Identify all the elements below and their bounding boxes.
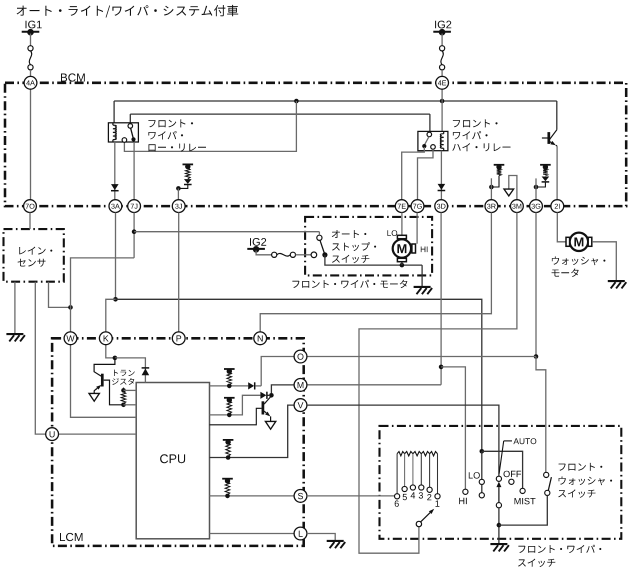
washer switch label [559,463,603,471]
motor LO label [387,230,397,236]
wire IG1 to fuse [30,34,32,46]
connector S [294,490,307,503]
wire 3R stub up [490,178,492,187]
IG2 label [435,21,451,29]
front wiper high relay box [418,131,448,150]
low relay contact [128,124,133,129]
motor HI label [421,247,428,253]
diode D2 high relay [440,151,442,200]
resistor-diode chain at 3J [183,163,194,165]
junction dot B [440,99,445,104]
washer motor M2 [570,233,588,251]
signal ground Q2 [265,421,275,429]
connector 7O [24,200,37,213]
low relay coil [113,125,116,140]
connector U [46,428,59,441]
junction dot arm [497,523,502,528]
wire 3R drop [490,187,492,200]
wire D4 to O riser [255,385,261,387]
transistor Q2 [262,401,265,414]
signal ground Q1 [89,393,99,401]
arrow marker 3M [504,189,514,196]
wire 3G down [535,213,537,357]
rain sensor box [4,229,64,282]
transistor label [114,370,135,377]
resistor-diode chain at 3G [540,164,551,166]
connector 4A [24,76,37,89]
wire 7J to W [71,258,135,332]
connector 3A [109,200,122,213]
wire 3D to M [307,384,441,386]
wire R1 to CPU [124,389,137,391]
wire LO dot to MIST [482,451,523,488]
junction dot Q2 collector [269,393,274,398]
washer switch [544,472,549,477]
connector V [294,399,307,412]
rotary taps [396,454,398,494]
front wiper switch box [380,426,622,539]
wire contact rail y113.6 [130,113,430,115]
wire base row to CPU [124,404,137,406]
connector 3R [485,200,498,213]
transistor Q3 [556,101,558,130]
wire U to CPU [58,433,136,435]
wire 7E to high relay common [402,147,425,200]
IG1 label [26,21,42,29]
wire high-relay contact riser [429,114,431,132]
rotary digits [395,500,399,506]
wire K feed to LO-MIST [116,299,482,451]
wire K branch [106,299,116,332]
high relay coil [440,134,443,149]
junction dot 3J [176,186,181,191]
connector 7E [395,200,408,213]
AUTO label [513,438,536,444]
connector K [99,332,112,345]
MIST contact [520,488,525,493]
wire 7G to high relay NO [418,149,434,199]
ground wiper switch [490,543,507,545]
BCM label [61,73,85,81]
connector W [64,332,77,345]
arm arrow [496,482,501,488]
wire 7O to rain sensor [29,213,31,230]
wire fuse to 4E [441,70,443,77]
connector 7J [128,200,141,213]
wire CPU to L [210,533,295,535]
resistor R5 [222,478,233,480]
wire node to fuse [256,251,272,255]
wire K to diode D3 [115,358,145,383]
front wiper switch label [518,545,601,553]
wire W to CPU [71,345,137,418]
wire O right [307,356,536,358]
fuse F2 [440,46,445,51]
wire 3D to HI contact [441,367,465,489]
wire fuse to switch [296,254,312,256]
node IG2 mid [247,248,265,250]
front wiper motor label [292,280,407,288]
connector 3M [511,200,524,213]
fuse F3 [272,252,277,257]
wire switch to motor common [325,255,422,265]
wire 3D down [440,213,442,385]
wire washer switch to arm dot [499,496,547,526]
wire Q1 base [104,380,122,405]
resistor R1 [121,388,126,393]
wire 7J to auto-stop switch [134,231,319,233]
wire 3J stub [177,188,179,199]
ground rain sensor [6,333,23,335]
connector 3D [435,200,448,213]
arm lower contact [496,503,501,508]
wire 7G to motor HI [416,213,418,244]
wire motor minus riser [401,262,403,265]
fuse F1 [28,46,33,51]
wire CPU row B [210,395,261,415]
resistor R3 [224,397,235,399]
wire rain sensor to ground [14,282,16,334]
wire CPU row C to V [210,405,295,457]
wire V to wiper switch arm [307,405,499,476]
resistor R4 [223,439,234,441]
high relay label [453,119,498,127]
node IG1 [22,31,40,33]
wire 4A to 7O [30,89,32,200]
wire supply rail y100 [114,100,557,102]
wire rain sensor to U [35,282,45,434]
title text [17,5,239,18]
connector P [172,332,185,345]
diode D1 low relay [114,142,116,200]
connector O [294,350,307,363]
LO contact pair [480,449,485,454]
connector 4E [436,76,449,89]
junction dot motor minus [400,263,405,268]
wire 3G jog to washer switch [536,357,546,473]
connector L [294,527,307,540]
wire low-relay coil top riser [113,101,115,123]
wire CPU row A [210,385,249,387]
connector 7G [411,200,424,213]
washer motor label [552,257,606,266]
low relay label [148,119,193,127]
junction dot K [113,297,118,302]
junction dot 3G [534,185,539,190]
BCM module box [5,83,626,206]
wire K into LCM [106,345,115,358]
high relay contact [427,132,432,137]
wire 7J down [133,213,135,258]
auto stop switch label [332,230,367,238]
ground L [327,540,344,542]
connector 3J [172,200,185,213]
wire 3G drop [535,187,537,200]
wire 3A down [115,213,117,300]
rain sensor label [19,247,52,255]
wire IG2 to fuse [441,34,443,46]
auto stop switch [311,252,317,258]
CPU box [136,383,209,539]
wire S to rotary contact 6 [307,495,395,497]
LCM module box [52,338,304,546]
wire 3M hook [509,176,517,200]
wire Q2 base row [210,408,262,425]
junction dot A [294,99,299,104]
wire fuse to 4A [30,70,32,77]
connector 3G [530,200,543,213]
junction dot 7J [132,229,137,234]
front wiper low relay box [108,123,138,142]
rotary resistor chain [397,452,405,456]
CPU label [160,454,185,463]
junction dot O-3G [534,354,539,359]
wire 7E to motor LO [401,213,403,236]
wire 3G stub up [535,178,537,187]
OFF arm contact [496,476,501,481]
front wiper motor box [305,217,432,276]
connector M [294,379,307,392]
wire to Q1 collector [94,358,115,376]
junction dot K-LCM [113,356,118,361]
AUTO pointer [504,440,512,442]
IG2 mid label [250,238,266,246]
connector 2I [551,200,564,213]
wire L to ground [307,534,335,541]
resistor chain at 3R [494,164,505,166]
front wiper motor M1 [393,239,411,257]
junction dot W-line [68,305,73,310]
wire 3J to P [178,213,180,332]
wire low-relay contact riser [129,114,131,124]
wire motor common to ground [421,265,423,286]
rotary contacts [395,494,400,499]
diode D5 [260,392,266,399]
LCM label [60,533,83,541]
junction dot 3R [489,185,494,190]
wire rain sensor to W-line [49,282,71,308]
diode D4 [248,382,254,389]
wire 2I to washer motor [557,213,565,242]
ground wiper motor [414,286,431,288]
wire N to 3R [260,213,491,332]
wire Q3 emitter to 2I [556,146,558,200]
transistor Q1 [101,374,104,387]
node IG2 [433,31,451,33]
diode D3 up [142,369,150,376]
wire 4E to high-relay coil [441,89,443,132]
ground washer motor [608,280,625,282]
wire 7J drop [133,142,135,200]
rotary arm [416,521,421,526]
wire 3M to wiper arm pivot [359,213,517,554]
junction dot 3D [439,365,444,370]
wire O left to diode [261,357,294,386]
wire low-relay NC to junction A [124,101,296,151]
wire M to Q2 collector [271,385,294,393]
wire washer motor to ground [592,242,616,281]
wire CPU row D to S [210,495,295,497]
HI contact [463,489,468,494]
connector N [254,332,267,345]
resistor R2 [224,368,235,370]
wire arm to ground [498,508,500,544]
